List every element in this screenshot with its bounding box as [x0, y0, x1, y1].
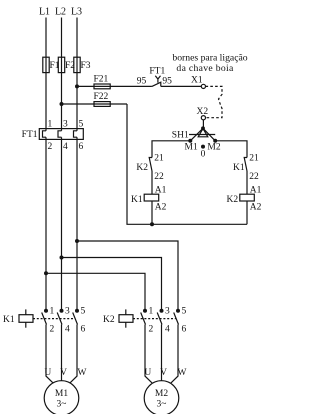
contact K1 pole 5-6: [73, 307, 86, 335]
svg-text:1: 1: [48, 120, 53, 130]
wire M2 to K2 branch: [215, 141, 247, 158]
overload relay FT1: [22, 120, 84, 153]
contact K1 pole 3-4: [57, 307, 70, 335]
wire M1 to K1 branch: [152, 141, 190, 158]
svg-text:3~: 3~: [57, 400, 67, 410]
wire K1 pole5 to motor: [69, 325, 77, 384]
svg-text:W: W: [178, 368, 187, 378]
svg-text:22: 22: [154, 172, 164, 182]
svg-text:U: U: [144, 368, 151, 378]
svg-text:5: 5: [81, 307, 86, 317]
float switch SH1: [172, 126, 221, 159]
wire K2 pole1 to motor: [145, 325, 153, 384]
svg-text:21: 21: [249, 154, 259, 164]
dashed cable X1 to X2: [206, 86, 223, 117]
svg-text:V: V: [160, 368, 167, 378]
svg-text:K2: K2: [227, 195, 239, 205]
contact K2 pole 5-6: [174, 307, 187, 335]
svg-text:L1: L1: [39, 7, 50, 18]
svg-text:A2: A2: [250, 202, 262, 212]
svg-text:L2: L2: [55, 7, 66, 18]
svg-text:6: 6: [79, 142, 84, 152]
svg-text:K1: K1: [233, 163, 245, 173]
svg-text:A1: A1: [250, 186, 262, 196]
annotation: bornes para ligação da chave boia: [172, 53, 247, 74]
svg-text:X2: X2: [197, 107, 209, 117]
wire contact to X1: [161, 85, 202, 87]
wire L2 phase lower: [61, 137, 63, 309]
thermal NC contact FT1 95-95: [137, 67, 172, 87]
fuse F22: [94, 92, 111, 106]
fuse F2: [58, 57, 75, 72]
svg-text:M1: M1: [55, 389, 68, 399]
fuse F3: [74, 57, 91, 72]
svg-text:M2: M2: [207, 143, 220, 153]
svg-text:X1: X1: [191, 76, 203, 86]
svg-text:U: U: [44, 368, 51, 378]
svg-text:K1: K1: [3, 315, 15, 325]
wire L3 tap through F21 to FT1 contact: [77, 85, 152, 87]
svg-text:A1: A1: [155, 186, 167, 196]
svg-text:6: 6: [81, 325, 86, 335]
wire L2 phase upper: [61, 18, 63, 131]
svg-text:V: V: [60, 368, 67, 378]
NC contact K1 21-22: [233, 154, 259, 182]
wire A2 to rail: [246, 201, 248, 224]
svg-text:M1: M1: [185, 143, 198, 153]
wire K2 pole3 to motor: [161, 325, 163, 381]
svg-text:K2: K2: [103, 315, 115, 325]
svg-text:3: 3: [65, 307, 70, 317]
svg-text:F22: F22: [94, 92, 109, 102]
wire L3 phase lower: [76, 137, 78, 309]
wire L3 phase upper: [76, 18, 78, 131]
wire 22 to A1: [151, 171, 153, 194]
contactor K2 operator: [103, 309, 133, 327]
svg-text:da chave boia: da chave boia: [176, 63, 234, 74]
junction L2 branch: [60, 256, 64, 260]
wire L1 phase upper: [45, 18, 47, 131]
svg-text:22: 22: [249, 172, 259, 182]
wire A2 to rail: [151, 201, 153, 224]
terminal X1: [191, 76, 205, 89]
wire L2 to K2 pole 3: [62, 258, 162, 310]
svg-text:4: 4: [65, 325, 70, 335]
svg-text:2: 2: [48, 142, 53, 152]
svg-text:W: W: [78, 368, 87, 378]
svg-text:K2: K2: [136, 163, 148, 173]
contact K2 pole 3-4: [157, 307, 170, 335]
svg-text:2: 2: [50, 325, 55, 335]
wire L1 phase lower: [45, 137, 47, 309]
svg-text:L3: L3: [71, 7, 82, 18]
junction L3 branch: [75, 239, 79, 243]
fuse F1: [43, 57, 60, 72]
wire L3 to K2 pole 5: [77, 241, 178, 309]
wire K1 pole1 to motor: [46, 325, 54, 384]
svg-text:6: 6: [182, 325, 187, 335]
svg-text:0: 0: [201, 150, 206, 160]
fuse F21: [94, 75, 111, 89]
svg-text:95: 95: [162, 77, 172, 87]
contact K2 pole 1-2: [141, 307, 154, 335]
mechanical link K2: [133, 318, 176, 320]
svg-text:21: 21: [154, 154, 164, 164]
svg-text:1: 1: [50, 307, 55, 317]
svg-text:3: 3: [165, 307, 170, 317]
svg-text:3: 3: [63, 120, 68, 130]
svg-text:SH1: SH1: [172, 130, 189, 140]
svg-text:3~: 3~: [157, 400, 167, 410]
junction L1 branch: [44, 271, 48, 275]
svg-text:FT1: FT1: [22, 130, 38, 140]
wire K1 pole3 to motor: [61, 325, 63, 381]
motor M2: [144, 368, 186, 414]
coil K2: [227, 186, 262, 213]
svg-text:5: 5: [182, 307, 187, 317]
svg-text:1: 1: [149, 307, 154, 317]
control return wire: [127, 104, 247, 224]
wire L2 tap through F22: [62, 103, 128, 105]
svg-text:A2: A2: [155, 202, 167, 212]
svg-text:5: 5: [79, 120, 84, 130]
contactor K1 operator: [3, 309, 33, 327]
coil K1: [131, 186, 167, 213]
wire K2 pole5 to motor: [170, 325, 178, 384]
svg-text:95: 95: [137, 77, 147, 87]
svg-text:4: 4: [165, 325, 170, 335]
svg-text:F21: F21: [94, 75, 109, 85]
svg-text:4: 4: [63, 142, 68, 152]
mechanical link K1: [33, 318, 75, 320]
terminal X2: [197, 107, 209, 120]
wire X2 to SH1: [202, 120, 204, 129]
wire 22 to A1: [246, 171, 248, 194]
svg-text:F3: F3: [81, 61, 91, 71]
svg-text:K1: K1: [131, 195, 143, 205]
junction on rail: [150, 222, 154, 226]
contact K1 pole 1-2: [42, 307, 55, 335]
NC contact K2 21-22: [136, 154, 164, 182]
junction L2 to F22: [60, 102, 64, 106]
svg-text:FT1: FT1: [149, 67, 165, 77]
motor M1: [44, 368, 86, 414]
wire L1 to K2 pole 1: [46, 273, 145, 309]
junction L3 to F21: [75, 84, 79, 88]
svg-text:2: 2: [149, 325, 154, 335]
svg-text:M2: M2: [155, 389, 168, 399]
